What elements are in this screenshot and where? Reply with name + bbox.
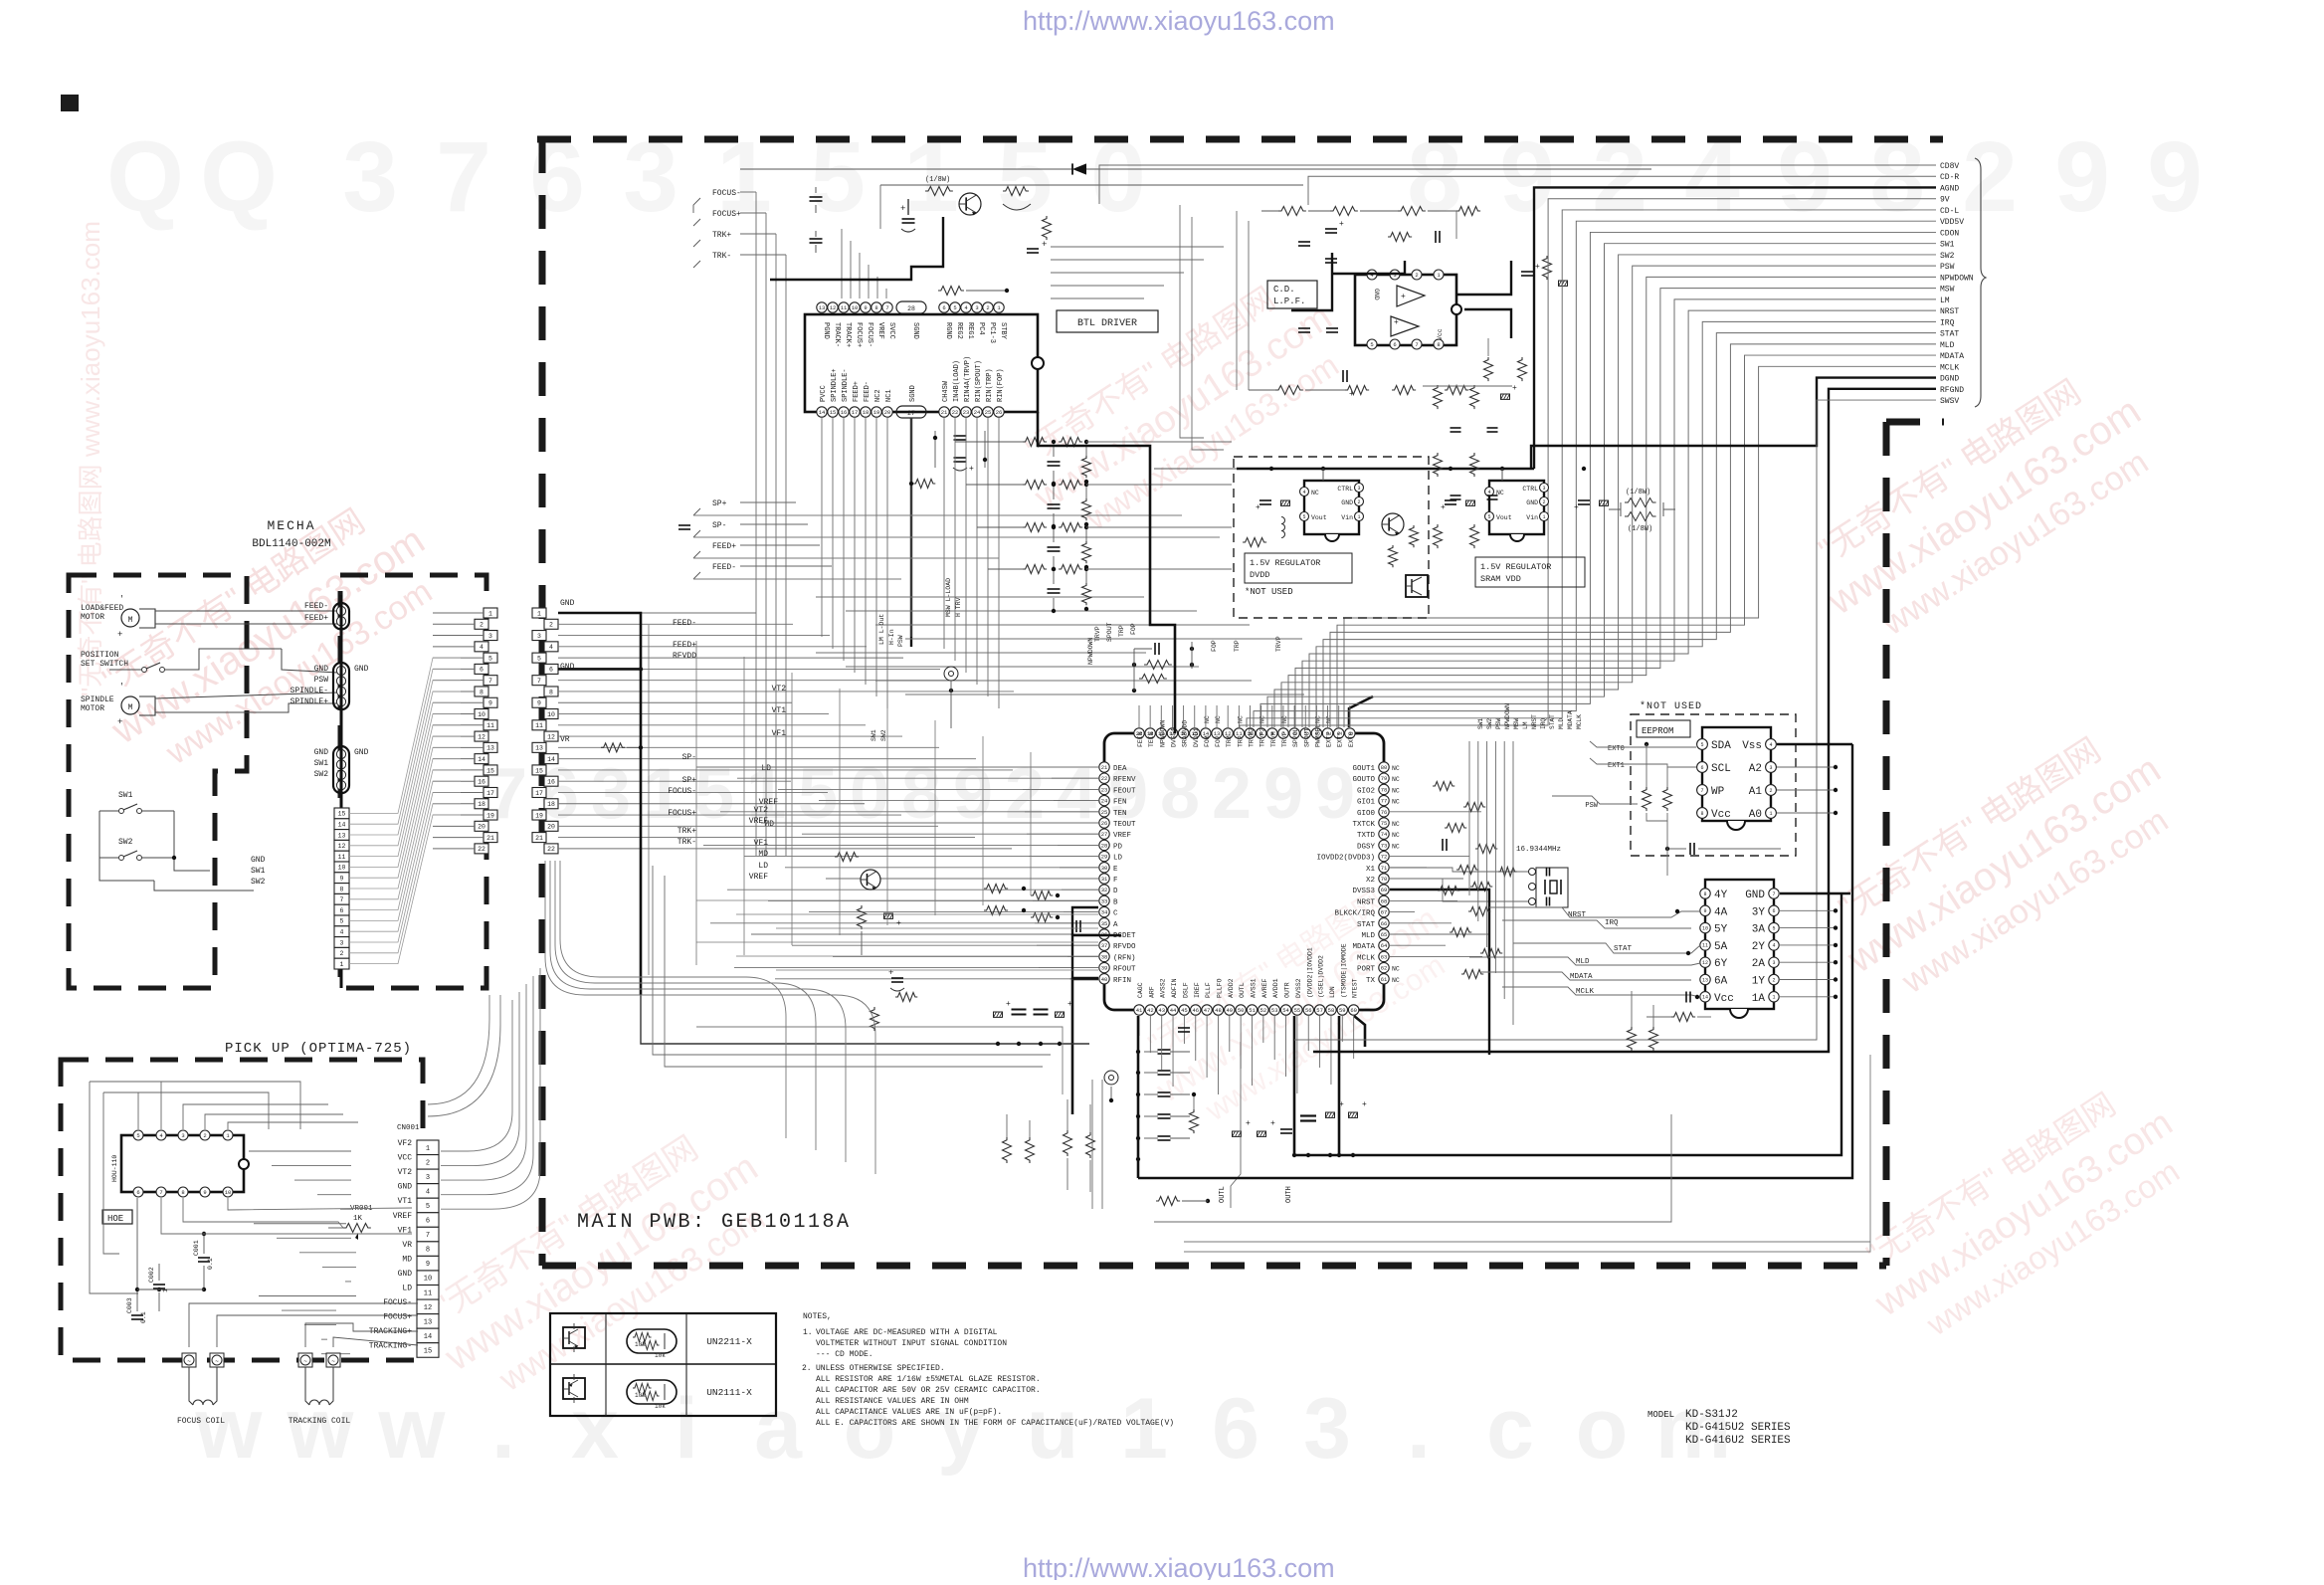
BTL DRIVER label box bbox=[1057, 310, 1158, 332]
svg-text:+: + bbox=[1006, 1000, 1011, 1009]
svg-text:21: 21 bbox=[941, 409, 948, 416]
legend digital transistor oval 2 bbox=[627, 1380, 677, 1404]
svg-text:14: 14 bbox=[478, 756, 485, 763]
svg-text:w: w bbox=[287, 1381, 355, 1477]
svg-text:23: 23 bbox=[963, 409, 970, 416]
hex inverter pins left bbox=[1700, 889, 1710, 898]
svg-text:9: 9 bbox=[953, 754, 993, 834]
QFP servo DSP IC U1 outline bbox=[1104, 733, 1384, 1010]
svg-text:~: ~ bbox=[331, 1358, 335, 1365]
svg-text:6A: 6A bbox=[1714, 976, 1728, 988]
svg-text:78: 78 bbox=[1381, 786, 1388, 793]
EEPROM cap below bbox=[1689, 843, 1691, 855]
QFP right pins stub wires bbox=[1390, 811, 1481, 813]
svg-text:8: 8 bbox=[340, 886, 344, 892]
watermark faint digits top row bbox=[106, 121, 2203, 233]
svg-text:13: 13 bbox=[1702, 977, 1708, 983]
svg-text:VT2: VT2 bbox=[398, 1168, 413, 1177]
svg-text:0: 0 bbox=[850, 754, 889, 834]
svg-text:70: 70 bbox=[1381, 876, 1388, 883]
svg-text:15: 15 bbox=[424, 1347, 432, 1355]
svg-text:SP-: SP- bbox=[682, 753, 696, 762]
EEPROM pins right bbox=[1766, 739, 1777, 750]
svg-text:NRST: NRST bbox=[1568, 911, 1587, 919]
svg-text:39: 39 bbox=[1101, 965, 1108, 972]
resistor pairs lines B C D bbox=[984, 885, 1008, 893]
crystal drive resistors bbox=[1470, 883, 1492, 892]
svg-text:5: 5 bbox=[136, 1132, 139, 1139]
QFP bottom pin row 41-60 bbox=[1134, 1005, 1144, 1015]
wires mecha fan from 15 strip to column A bbox=[349, 658, 461, 813]
connector column A 1-22 bbox=[484, 608, 497, 618]
svg-text:10: 10 bbox=[478, 711, 485, 718]
svg-text:5Y: 5Y bbox=[1714, 924, 1728, 936]
svg-text:18: 18 bbox=[478, 801, 485, 808]
svg-text:X2: X2 bbox=[1366, 877, 1375, 885]
CD LPF left wire frame bbox=[1180, 205, 1204, 438]
btl thick net segment bbox=[770, 217, 943, 280]
CD LPF bottom right resistors bbox=[1484, 357, 1493, 381]
svg-text:FOP: FOP bbox=[1130, 623, 1137, 635]
svg-text:79: 79 bbox=[1381, 775, 1388, 782]
btl bottom caps cluster bbox=[954, 457, 967, 459]
svg-text:VCC: VCC bbox=[398, 1154, 413, 1163]
svg-text:4: 4 bbox=[1772, 943, 1775, 949]
svg-text:21: 21 bbox=[486, 835, 494, 842]
resistor row right of QFP bbox=[1433, 782, 1454, 791]
CD LPF resistor r5 bbox=[1388, 233, 1412, 242]
svg-text:34: 34 bbox=[1101, 909, 1108, 916]
svg-text:3: 3 bbox=[181, 1132, 184, 1139]
svg-text:TRVP2: TRVP2 bbox=[1259, 727, 1266, 747]
bottom resistor h bbox=[1156, 1197, 1180, 1206]
svg-text:8: 8 bbox=[1437, 341, 1440, 348]
svg-text:CH4SW: CH4SW bbox=[942, 380, 950, 402]
svg-text:C: C bbox=[1113, 910, 1118, 918]
svg-text:NC: NC bbox=[1204, 715, 1211, 723]
svg-text:*NOT USED: *NOT USED bbox=[1245, 587, 1293, 597]
EEPROM pins left bbox=[1697, 739, 1708, 750]
svg-text:TRK-: TRK- bbox=[712, 252, 731, 261]
svg-text:RGND: RGND bbox=[944, 322, 952, 339]
resistor on LD line bbox=[835, 853, 859, 862]
svg-text:NC: NC bbox=[1392, 966, 1400, 973]
svg-text:55: 55 bbox=[1294, 1007, 1301, 1014]
CD LPF thick nets bbox=[1291, 253, 1332, 310]
svg-text:10k: 10k bbox=[655, 1352, 666, 1359]
svg-text:SPPGL: SPPGL bbox=[1292, 727, 1299, 747]
svg-text:+: + bbox=[1574, 503, 1579, 512]
svg-text:17: 17 bbox=[535, 790, 543, 797]
CD LPF label box bbox=[1267, 281, 1317, 308]
svg-text:3: 3 bbox=[1357, 486, 1360, 492]
svg-text:L.P.F.: L.P.F. bbox=[1273, 297, 1305, 306]
svg-text:~: ~ bbox=[303, 1358, 307, 1365]
svg-text:PLLF: PLLF bbox=[1205, 982, 1212, 998]
wires SW1 SW2 to gnd rail bbox=[99, 811, 154, 881]
svg-text:SPINDLE: SPINDLE bbox=[81, 695, 114, 704]
svg-text:SRAM VDD: SRAM VDD bbox=[1480, 574, 1521, 584]
svg-text:SWSV: SWSV bbox=[1940, 397, 1959, 406]
svg-text:VF2: VF2 bbox=[398, 1139, 413, 1148]
hex inverter pins right bbox=[1769, 889, 1779, 898]
svg-text:11: 11 bbox=[338, 854, 346, 861]
svg-text:24: 24 bbox=[1101, 798, 1108, 805]
svg-text:32: 32 bbox=[1101, 887, 1108, 893]
svg-text:NC: NC bbox=[1392, 977, 1400, 984]
dots row thick join bbox=[1292, 1153, 1296, 1157]
HOE label box bbox=[102, 1210, 132, 1224]
connector column B 1-22 bbox=[532, 608, 546, 618]
svg-text:64: 64 bbox=[1381, 942, 1388, 949]
svg-text:5: 5 bbox=[340, 918, 344, 925]
svg-text:PSW: PSW bbox=[1585, 802, 1598, 810]
regulator IC U5 body bbox=[1304, 481, 1359, 534]
svg-text:ALL CAPACITOR ARE 50V OR 25V C: ALL CAPACITOR ARE 50V OR 25V CERAMIC CAP… bbox=[816, 1386, 1041, 1395]
svg-text:GND: GND bbox=[1745, 890, 1765, 901]
watermark giant bottom url letters bbox=[195, 1381, 1732, 1477]
pickup extra interior wires bbox=[161, 1198, 412, 1234]
svg-text:13: 13 bbox=[819, 304, 826, 311]
svg-text:30: 30 bbox=[1101, 865, 1108, 872]
svg-text:3: 3 bbox=[1769, 765, 1772, 771]
svg-text:+: + bbox=[1349, 390, 1354, 399]
svg-text:BLKCK/IRQ: BLKCK/IRQ bbox=[1334, 910, 1375, 918]
svg-text:2Y: 2Y bbox=[1752, 941, 1766, 953]
svg-text:SVCC: SVCC bbox=[887, 322, 895, 339]
svg-text:6: 6 bbox=[942, 304, 945, 311]
MECHA block dashed box bbox=[69, 575, 247, 988]
mecha connector dashed box bbox=[340, 575, 486, 988]
svg-text:RIN(FOP): RIN(FOP) bbox=[997, 368, 1005, 402]
svg-text:1: 1 bbox=[1769, 811, 1772, 817]
svg-text:KD-G416U2 SERIES: KD-G416U2 SERIES bbox=[1685, 1435, 1791, 1447]
svg-text:3Y: 3Y bbox=[1752, 906, 1766, 918]
svg-text:3: 3 bbox=[1542, 486, 1545, 492]
svg-text:1: 1 bbox=[1772, 995, 1775, 1001]
15-pin connector strip bbox=[334, 808, 349, 819]
svg-text:+: + bbox=[1535, 263, 1540, 272]
svg-text:OUTH: OUTH bbox=[1285, 1186, 1293, 1203]
QFP top pins stub wires bbox=[1138, 705, 1140, 727]
svg-text:9: 9 bbox=[340, 876, 344, 883]
svg-text:MODEL: MODEL bbox=[1647, 1410, 1674, 1420]
svg-text:NC: NC bbox=[1392, 832, 1400, 839]
svg-text:AVDD1: AVDD1 bbox=[1272, 978, 1279, 998]
svg-text:VREF: VREF bbox=[393, 1212, 412, 1221]
svg-text:19: 19 bbox=[873, 409, 880, 416]
svg-text:VOLTAGE ARE DC-MEASURED WITH A: VOLTAGE ARE DC-MEASURED WITH A DIGITAL bbox=[816, 1328, 998, 1337]
svg-text:A2: A2 bbox=[1749, 763, 1762, 775]
svg-text:5A: 5A bbox=[1714, 941, 1728, 953]
svg-text:MLD: MLD bbox=[1558, 718, 1565, 729]
svg-text:FEED+: FEED+ bbox=[853, 381, 861, 402]
svg-text:17: 17 bbox=[486, 790, 494, 797]
svg-text:TRVP: TRVP bbox=[1275, 636, 1282, 652]
regulator DVDD caps bbox=[1259, 499, 1271, 501]
svg-text:KD-G415U2 SERIES: KD-G415U2 SERIES bbox=[1685, 1422, 1791, 1434]
CD LPF bottom pins 5-8 bbox=[1367, 339, 1377, 349]
svg-text:42: 42 bbox=[1147, 1007, 1154, 1014]
svg-text:AGND: AGND bbox=[1940, 184, 1959, 193]
svg-text:8: 8 bbox=[1160, 754, 1200, 834]
svg-text:6: 6 bbox=[1700, 765, 1703, 771]
svg-text:2: 2 bbox=[1769, 788, 1772, 794]
svg-text:21: 21 bbox=[1101, 764, 1108, 771]
left mid horizontal wires to QFP bbox=[696, 766, 1098, 768]
right edge nested L wire bundle bbox=[1099, 165, 1936, 204]
CD LPF bottom caps bbox=[1298, 327, 1310, 329]
svg-text:22: 22 bbox=[478, 846, 485, 853]
svg-text:7: 7 bbox=[885, 304, 888, 311]
svg-text:MLD: MLD bbox=[1940, 341, 1955, 350]
svg-text:GND: GND bbox=[354, 748, 369, 757]
svg-text:5: 5 bbox=[1487, 514, 1490, 520]
svg-text:28: 28 bbox=[907, 305, 915, 312]
svg-text:AVREF: AVREF bbox=[1261, 978, 1268, 998]
regulator resistor r bbox=[1410, 525, 1419, 547]
legend table frame bbox=[550, 1313, 776, 1416]
svg-text:ALL E. CAPACITORS ARE SHOWN IN: ALL E. CAPACITORS ARE SHOWN IN THE FORM … bbox=[816, 1419, 1174, 1428]
svg-text:11: 11 bbox=[1702, 943, 1708, 949]
svg-text:11: 11 bbox=[486, 722, 494, 729]
resistor right of cap ladder bbox=[1190, 1109, 1199, 1133]
target symbol marker bbox=[944, 667, 958, 681]
HOU-110 pickup IC body bbox=[121, 1135, 244, 1192]
cluster near pin17 bbox=[1154, 643, 1156, 655]
svg-text:DGSY: DGSY bbox=[1357, 843, 1376, 851]
svg-text:NPWDOWN: NPWDOWN bbox=[1940, 274, 1974, 283]
svg-text:ALL CAPACITANCE VALUES ARE IN: ALL CAPACITANCE VALUES ARE IN uF(p=pF). bbox=[816, 1408, 1002, 1417]
thick DVSS1 supply rail from BTL bbox=[1038, 412, 1175, 733]
legend digital transistor oval 1 bbox=[627, 1329, 677, 1353]
svg-text:2: 2 bbox=[426, 1159, 430, 1167]
svg-text:MCLK: MCLK bbox=[1357, 954, 1376, 962]
svg-text:u: u bbox=[1027, 1381, 1079, 1477]
svg-text:B: B bbox=[1113, 898, 1118, 906]
svg-text:8: 8 bbox=[1703, 892, 1706, 897]
svg-text:5: 5 bbox=[488, 655, 492, 662]
btl cap C above left pins bbox=[810, 196, 823, 198]
svg-text:+: + bbox=[1401, 293, 1406, 301]
svg-text:37: 37 bbox=[1101, 942, 1108, 949]
svg-text:RIN(TRP): RIN(TRP) bbox=[986, 368, 994, 402]
svg-text:TXTCK: TXTCK bbox=[1352, 821, 1375, 829]
svg-text:UNLESS OTHERWISE SPECIFIED.: UNLESS OTHERWISE SPECIFIED. bbox=[816, 1364, 945, 1373]
svg-text:MD: MD bbox=[402, 1255, 412, 1264]
svg-text:20: 20 bbox=[884, 409, 891, 416]
svg-text:MSW: MSW bbox=[1513, 718, 1520, 729]
svg-text:3: 3 bbox=[1303, 1381, 1351, 1477]
svg-text:FEED+: FEED+ bbox=[673, 641, 696, 650]
mecha connector vertical bus bbox=[340, 595, 343, 808]
svg-text:7: 7 bbox=[1415, 341, 1418, 348]
svg-text:4: 4 bbox=[426, 1188, 430, 1196]
svg-text:3: 3 bbox=[591, 754, 631, 834]
svg-text:REG1: REG1 bbox=[966, 322, 974, 339]
svg-text:2A: 2A bbox=[1752, 958, 1766, 970]
svg-text:+: + bbox=[1067, 1000, 1072, 1009]
svg-text:NRST: NRST bbox=[1531, 714, 1538, 729]
svg-text:SW1: SW1 bbox=[1477, 718, 1484, 729]
svg-text:11: 11 bbox=[535, 722, 543, 729]
wire spindle motor to connector bbox=[155, 693, 338, 698]
svg-text:PICK UP (OPTIMA-725): PICK UP (OPTIMA-725) bbox=[225, 1041, 412, 1057]
svg-text:MOTOR: MOTOR bbox=[81, 613, 104, 622]
svg-text:4A: 4A bbox=[1714, 906, 1728, 918]
cap near pin43 bbox=[1178, 1027, 1190, 1029]
svg-text:SDA: SDA bbox=[1711, 740, 1731, 752]
svg-text:9: 9 bbox=[864, 304, 867, 311]
svg-text:65: 65 bbox=[1381, 931, 1388, 938]
svg-text:62: 62 bbox=[1381, 965, 1388, 972]
gnd cap cluster y1017 bbox=[994, 1012, 1003, 1017]
wires 15-pin strip fanout bbox=[349, 812, 1035, 814]
pickup junction dots bbox=[135, 1288, 139, 1291]
svg-text:TRACKING+: TRACKING+ bbox=[369, 1327, 412, 1336]
QFP thick EXT0 lead bbox=[1349, 696, 1373, 727]
svg-text:OUTR: OUTR bbox=[1284, 982, 1291, 998]
resistor right of Q7 bbox=[1003, 187, 1029, 196]
wires column B signals to main area bbox=[558, 612, 756, 614]
svg-text:60: 60 bbox=[1350, 1007, 1357, 1014]
svg-text:3: 3 bbox=[1772, 960, 1775, 966]
diode D top bbox=[1072, 163, 1086, 174]
svg-text:IN4B(LOAD): IN4B(LOAD) bbox=[953, 360, 961, 402]
resistor below Q3 bbox=[858, 905, 867, 929]
transistor Q6 boxed bbox=[1406, 575, 1428, 597]
svg-text:3: 3 bbox=[537, 633, 541, 640]
svg-text:TRK-: TRK- bbox=[678, 838, 696, 847]
svg-text:TRACKING COIL: TRACKING COIL bbox=[289, 1417, 351, 1426]
svg-text:HOE: HOE bbox=[107, 1214, 123, 1224]
bundle S-curve lower main area bbox=[545, 861, 875, 1174]
svg-text:24: 24 bbox=[974, 409, 981, 416]
svg-text:IREF: IREF bbox=[1194, 982, 1201, 998]
CD LPF caps right of ic bbox=[1521, 271, 1533, 273]
svg-text:6: 6 bbox=[1393, 341, 1396, 348]
svg-text:VT2: VT2 bbox=[754, 806, 769, 815]
svg-text:HOU-110: HOU-110 bbox=[111, 1155, 118, 1182]
svg-text:VREF: VREF bbox=[1113, 832, 1131, 840]
svg-text:OUTL: OUTL bbox=[1239, 982, 1246, 998]
svg-text:MDATA: MDATA bbox=[1567, 710, 1574, 729]
svg-text:6: 6 bbox=[480, 667, 484, 674]
svg-text:6: 6 bbox=[426, 1218, 430, 1226]
svg-text:DGND: DGND bbox=[1940, 375, 1959, 384]
svg-text:NOTES,: NOTES, bbox=[803, 1312, 832, 1321]
svg-text:5: 5 bbox=[1772, 925, 1775, 931]
svg-text:25: 25 bbox=[1101, 809, 1108, 816]
res_v left mid low bbox=[871, 1007, 879, 1031]
svg-text:12: 12 bbox=[338, 843, 346, 850]
svg-text:77: 77 bbox=[1381, 798, 1388, 805]
svg-text:9: 9 bbox=[537, 700, 541, 707]
svg-text:FEED-: FEED- bbox=[864, 381, 871, 402]
HOU-110 bottom pins 6-10 bbox=[133, 1187, 143, 1197]
focus coil inductor bbox=[189, 1367, 193, 1405]
svg-text:a: a bbox=[754, 1381, 803, 1477]
svg-text:SW2: SW2 bbox=[314, 770, 329, 779]
svg-text:20: 20 bbox=[478, 824, 485, 831]
svg-text:45: 45 bbox=[1181, 1007, 1188, 1014]
svg-text:27: 27 bbox=[907, 410, 915, 417]
svg-text:LD: LD bbox=[402, 1285, 412, 1293]
svg-text:NC: NC bbox=[1392, 843, 1400, 850]
svg-text:STBY: STBY bbox=[999, 322, 1007, 340]
CN001 left wires bbox=[249, 1150, 351, 1152]
svg-text:GND: GND bbox=[398, 1270, 413, 1279]
svg-text:EXT0: EXT0 bbox=[1608, 745, 1625, 753]
svg-text:SPINDLE-: SPINDLE- bbox=[842, 368, 850, 402]
svg-text:DVDD: DVDD bbox=[1250, 570, 1269, 580]
svg-text:14: 14 bbox=[338, 822, 346, 829]
svg-text:TRP: TRP bbox=[1237, 735, 1244, 747]
svg-text:29: 29 bbox=[1101, 854, 1108, 861]
svg-text:FOCUS+: FOCUS+ bbox=[712, 210, 741, 219]
svg-text:w: w bbox=[378, 1381, 447, 1477]
svg-text:73: 73 bbox=[1381, 842, 1388, 849]
svg-text:LM L-Out: LM L-Out bbox=[878, 614, 885, 645]
svg-text:GND: GND bbox=[314, 748, 329, 757]
svg-text:+: + bbox=[900, 204, 905, 214]
svg-text:SW2: SW2 bbox=[1940, 252, 1955, 261]
crystal wires to QFP bbox=[1390, 868, 1528, 872]
svg-text:MCLK: MCLK bbox=[1576, 714, 1583, 729]
svg-text:M: M bbox=[128, 616, 133, 625]
bottom extra bundle lines bbox=[1184, 1055, 1870, 1252]
svg-text:8: 8 bbox=[426, 1247, 430, 1255]
regulator DVDD title box bbox=[1245, 553, 1352, 583]
svg-text:28: 28 bbox=[1101, 842, 1108, 849]
QFP top pin row 20-1 bbox=[1134, 728, 1144, 738]
svg-text:1K: 1K bbox=[353, 1215, 363, 1223]
svg-text:Vss: Vss bbox=[1742, 740, 1762, 752]
svg-text:2: 2 bbox=[203, 1132, 206, 1139]
svg-text:58: 58 bbox=[1328, 1007, 1335, 1014]
svg-text:VF1: VF1 bbox=[754, 839, 769, 848]
svg-text:TRVP: TRVP bbox=[1281, 731, 1288, 747]
svg-text:5: 5 bbox=[537, 655, 541, 662]
wires focus/trk stubs into btl area bbox=[740, 191, 756, 193]
svg-text:FEED-: FEED- bbox=[712, 563, 736, 572]
svg-text:WP: WP bbox=[1711, 786, 1725, 798]
CD LPF bottom resistor row bbox=[1275, 386, 1303, 395]
svg-text:33: 33 bbox=[1101, 897, 1108, 904]
svg-text:3: 3 bbox=[426, 1174, 430, 1182]
regulator U5 pins bbox=[1300, 488, 1309, 496]
svg-text:17: 17 bbox=[852, 409, 859, 416]
CD LPF interconnect wires bbox=[1236, 211, 1238, 390]
svg-text:2: 2 bbox=[1415, 272, 1418, 279]
resistor below hex bbox=[1671, 1013, 1695, 1022]
connector feed 2-pin oval bbox=[333, 603, 349, 629]
svg-text:Vin: Vin bbox=[1526, 514, 1538, 521]
below QFP wires down bbox=[1138, 1035, 1140, 1037]
svg-text:3: 3 bbox=[975, 304, 978, 311]
svg-text:MLD: MLD bbox=[1361, 932, 1375, 940]
svg-text:~: ~ bbox=[215, 1358, 219, 1365]
svg-text:+: + bbox=[1256, 503, 1260, 512]
svg-text:GIO2: GIO2 bbox=[1357, 787, 1375, 795]
legend transistor icon 1 bbox=[563, 1327, 585, 1348]
EEPROM IC U7 body bbox=[1702, 727, 1771, 821]
svg-text:12: 12 bbox=[1702, 960, 1708, 966]
wire load/feed motor to connector bbox=[155, 610, 338, 612]
svg-text:13: 13 bbox=[535, 745, 543, 752]
svg-text:22: 22 bbox=[952, 409, 959, 416]
svg-text:16: 16 bbox=[841, 409, 848, 416]
